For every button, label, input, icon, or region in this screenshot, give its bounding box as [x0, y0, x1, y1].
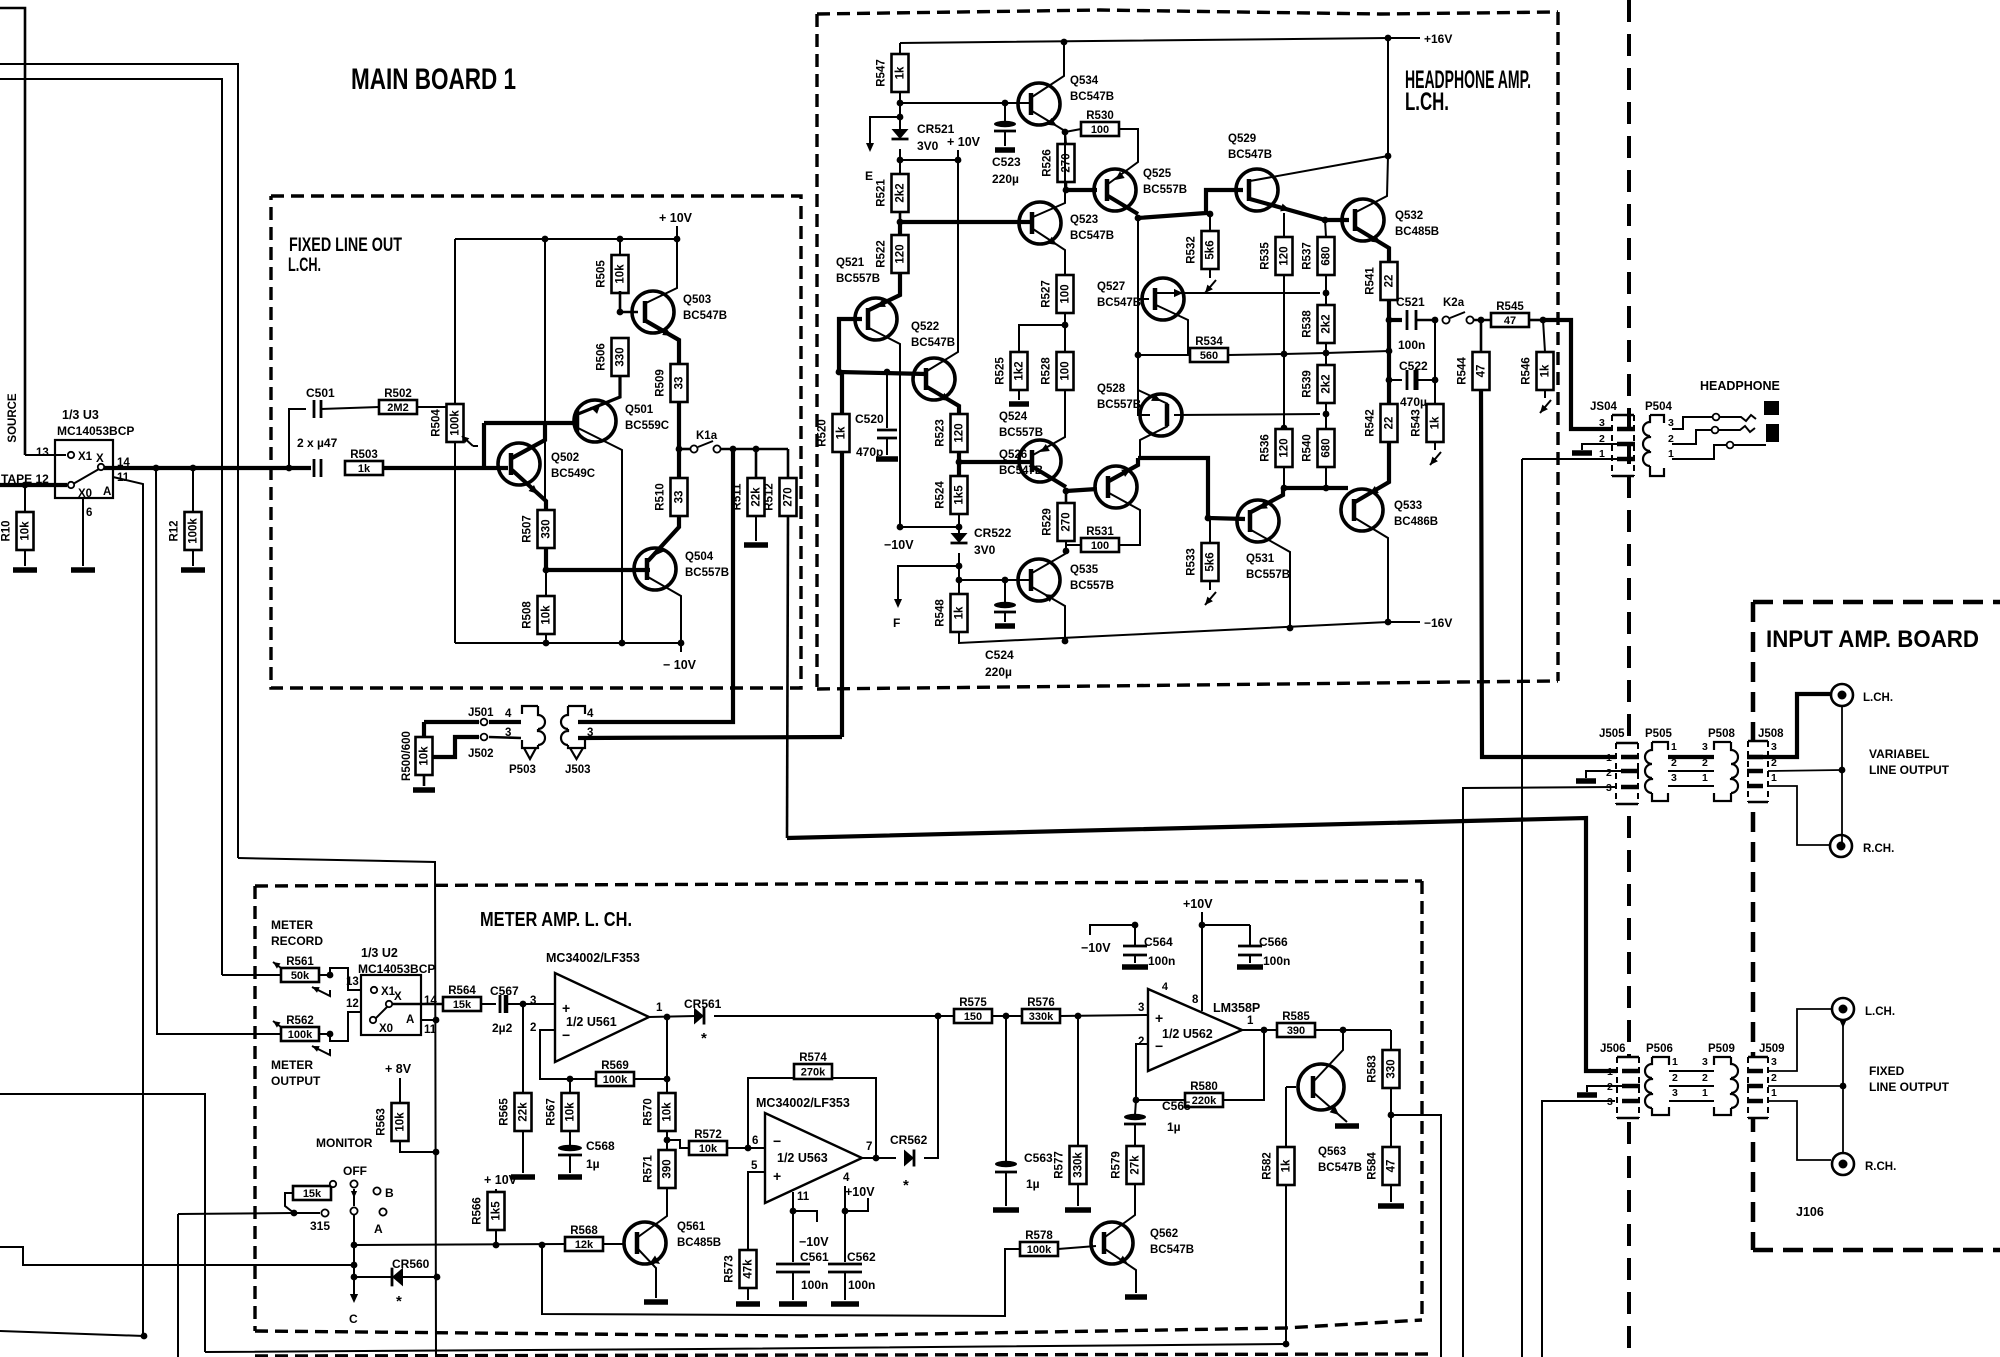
svg-text:27k: 27k	[1130, 1155, 1142, 1175]
svg-text:+ 8V: + 8V	[385, 1062, 412, 1076]
svg-text:R577: R577	[1054, 1151, 1066, 1179]
svg-text:2k2: 2k2	[895, 183, 907, 202]
svg-text:2 x µ47: 2 x µ47	[297, 436, 338, 450]
resistor R507	[538, 510, 555, 548]
resistor R531	[1066, 545, 1081, 551]
svg-text:100k: 100k	[603, 1074, 628, 1086]
svg-text:R563: R563	[376, 1108, 388, 1136]
svg-text:10k: 10k	[20, 521, 32, 541]
svg-text:LM358P: LM358P	[1213, 1001, 1260, 1015]
transistor Q524	[1019, 440, 1061, 482]
resistor R573	[740, 1250, 757, 1288]
svg-text:47: 47	[1476, 365, 1488, 378]
R561 wiper	[312, 987, 330, 996]
svg-text:100: 100	[1091, 124, 1109, 136]
wire J504 pin1 row	[1522, 458, 1634, 460]
wire R534 row to thick column	[1284, 351, 1389, 354]
svg-text:10k: 10k	[662, 1102, 674, 1122]
wire -10V rail bottom of fixed block	[455, 642, 681, 644]
svg-text:330: 330	[615, 347, 627, 366]
svg-text:390: 390	[662, 1159, 674, 1178]
svg-text:C564: C564	[1144, 935, 1173, 949]
svg-text:5k6: 5k6	[1205, 552, 1217, 571]
wire headphone output to J504	[1543, 320, 1634, 429]
node C arrow	[353, 1283, 355, 1297]
svg-text:R580: R580	[1190, 1081, 1218, 1093]
svg-text:R585: R585	[1282, 1011, 1310, 1023]
svg-text:315: 315	[310, 1219, 330, 1233]
svg-text:R566: R566	[472, 1197, 484, 1225]
wire Q524 collector to R529 node	[1033, 467, 1066, 487]
svg-text:Q532: Q532	[1395, 210, 1423, 222]
wire R583 to R584	[1390, 1088, 1392, 1147]
svg-text:BC485B: BC485B	[1395, 226, 1439, 238]
resistor R582	[1278, 1147, 1295, 1185]
transistor Q563	[1298, 1064, 1344, 1110]
opamp U562 triangle	[1148, 989, 1242, 1071]
transistor Q522	[913, 358, 955, 400]
svg-text:Q521: Q521	[836, 257, 865, 269]
svg-text:100: 100	[1060, 361, 1072, 380]
svg-text:R529: R529	[1042, 508, 1054, 536]
svg-text:*: *	[396, 1293, 402, 1310]
wire Q528 lower diag to output node	[1140, 426, 1168, 456]
wire U2 output to R564	[392, 1003, 443, 1006]
transistor emitter arrows	[662, 328, 672, 336]
transistor Q525	[1094, 169, 1136, 211]
wire R534 right to R535 node	[1228, 354, 1284, 355]
svg-text:R538: R538	[1302, 310, 1314, 338]
svg-text:4: 4	[1162, 981, 1169, 993]
resistor R547	[899, 43, 901, 54]
wire TAPE input	[0, 483, 67, 487]
svg-text:10k: 10k	[419, 746, 431, 766]
svg-text:220µ: 220µ	[985, 665, 1012, 679]
svg-text:−10V: −10V	[884, 538, 914, 552]
wire R561 to U2 pin13	[319, 968, 361, 990]
ground at J506 pin2	[1587, 1086, 1623, 1092]
wire K1a to R511 R512	[720, 448, 788, 451]
resistor R505	[619, 239, 621, 255]
zener CR521 3V0	[892, 129, 909, 139]
wire Q522 emitter to R523	[927, 387, 959, 414]
node E arrow	[870, 117, 900, 148]
svg-text:C520: C520	[855, 412, 884, 426]
RCA jack R.CH fixed	[1832, 1153, 1854, 1175]
wire mid column Q525-Q527-R534-Q528	[1138, 218, 1150, 415]
resistor R540	[1325, 414, 1327, 429]
wire jack to jack	[1841, 706, 1843, 846]
svg-text:SOURCE: SOURCE	[7, 393, 19, 443]
svg-text:R544: R544	[1457, 357, 1469, 385]
svg-text:BC547B: BC547B	[1070, 230, 1114, 242]
wire long bottom run 1	[0, 1331, 144, 1336]
wire K2a to R545	[1473, 319, 1491, 322]
wire R574 to output	[832, 1078, 876, 1158]
svg-text:BC557B: BC557B	[1070, 580, 1114, 592]
svg-text:R527: R527	[1041, 280, 1053, 308]
wire +10V rail top of fixed block	[455, 238, 677, 240]
wire node to Q526 base	[1066, 489, 1097, 491]
svg-text:1k: 1k	[836, 426, 848, 439]
svg-text:−10V: −10V	[799, 1235, 829, 1249]
capacitor C524 220u	[1004, 580, 1006, 603]
svg-text:Q534: Q534	[1070, 75, 1099, 87]
svg-text:R524: R524	[935, 481, 947, 509]
svg-text:12k: 12k	[575, 1239, 594, 1251]
wire Q529 emitter to Q532 base	[1250, 199, 1349, 220]
wire Q523 collector column	[1033, 132, 1065, 217]
wire thick input vertical from J503	[840, 374, 844, 737]
svg-text:10k: 10k	[699, 1143, 718, 1155]
svg-text:3: 3	[1668, 417, 1674, 429]
resistor R584	[1383, 1147, 1400, 1185]
svg-text:150: 150	[964, 1011, 982, 1023]
wire Q563 base from R582	[1286, 1086, 1296, 1088]
svg-text:OFF: OFF	[343, 1164, 367, 1178]
wire R505 to Q503 base	[620, 291, 638, 312]
svg-text:R542: R542	[1365, 409, 1377, 437]
wire Q523 emitter to R527	[1033, 229, 1065, 275]
resistor R574	[794, 1064, 832, 1079]
wire Q501 collector down to -10V rail	[578, 428, 622, 643]
svg-text:12: 12	[346, 998, 359, 1010]
svg-text:R534: R534	[1195, 336, 1223, 348]
svg-text:−10V: −10V	[1081, 941, 1111, 955]
svg-text:MAIN BOARD 1: MAIN BOARD 1	[351, 63, 516, 96]
svg-text:METER: METER	[271, 1058, 313, 1072]
transistor Q528	[1140, 394, 1182, 436]
svg-text:BC559C: BC559C	[625, 420, 669, 432]
svg-text:4: 4	[587, 708, 594, 720]
svg-text:A: A	[374, 1222, 383, 1236]
svg-text:BC547B: BC547B	[1097, 297, 1141, 309]
svg-text:1k: 1k	[358, 463, 371, 475]
svg-text:L.CH.: L.CH.	[1405, 88, 1449, 116]
wire Q527 collector	[1156, 305, 1188, 354]
svg-text:15k: 15k	[303, 1188, 322, 1200]
svg-text:R561: R561	[286, 956, 314, 968]
svg-text:3: 3	[530, 995, 536, 1007]
svg-text:1/2 U562: 1/2 U562	[1162, 1027, 1213, 1041]
resistor R567	[569, 1079, 571, 1093]
svg-text:270: 270	[1061, 512, 1073, 531]
svg-text:1/3 U2: 1/3 U2	[361, 946, 398, 960]
wire Q524 base thick row	[959, 460, 1031, 464]
capacitor C563 1u	[1005, 1016, 1007, 1162]
wire Q561 emitter to ground	[638, 1249, 656, 1298]
svg-text:680: 680	[1321, 438, 1333, 457]
transistor Q529	[1236, 169, 1278, 211]
svg-text:P506: P506	[1646, 1043, 1673, 1055]
svg-text:C524: C524	[985, 648, 1014, 662]
wire thick rail to Q533 base	[1283, 486, 1348, 490]
svg-text:1: 1	[1672, 1056, 1678, 1068]
svg-text:3: 3	[1702, 741, 1708, 753]
svg-text:R573: R573	[724, 1255, 736, 1283]
svg-text:22: 22	[1384, 275, 1396, 288]
svg-text:R575: R575	[959, 997, 987, 1009]
transistor Q532	[1342, 199, 1384, 241]
svg-text:J502: J502	[468, 748, 494, 760]
svg-text:1: 1	[1606, 752, 1612, 764]
wire U3 X output down to R562 feed	[156, 468, 281, 1034]
svg-text:R568: R568	[570, 1225, 598, 1237]
capacitor C568 1u	[569, 1131, 571, 1146]
svg-text:22: 22	[1384, 417, 1396, 430]
svg-text:1: 1	[1671, 741, 1677, 753]
dashed box INPUT AMP BOARD	[1753, 600, 2000, 605]
svg-text:R572: R572	[694, 1129, 722, 1141]
svg-text:15k: 15k	[453, 999, 472, 1011]
wire Q502 collector to base row	[512, 424, 545, 458]
svg-text:3: 3	[1672, 1087, 1678, 1099]
resistor R575	[954, 1009, 992, 1023]
svg-text:220k: 220k	[1192, 1095, 1217, 1107]
svg-text:BC547B: BC547B	[1318, 1162, 1362, 1174]
resistor R580	[1185, 1093, 1223, 1107]
wire Q563 collector	[1314, 1030, 1343, 1081]
resistor R536	[1276, 429, 1293, 467]
svg-text:−16V: −16V	[1424, 616, 1452, 630]
wire R527 to node	[1064, 313, 1066, 325]
svg-text:−: −	[562, 1027, 570, 1043]
svg-text:+10V: +10V	[1183, 897, 1213, 911]
svg-text:R504: R504	[431, 409, 443, 437]
wire R509 to K1a node	[677, 401, 681, 449]
svg-text:X1: X1	[78, 451, 93, 463]
svg-text:3: 3	[505, 727, 511, 739]
resistor R570	[659, 1093, 676, 1131]
wire mid column +10V to R507	[544, 239, 546, 505]
svg-text:Q502: Q502	[551, 452, 579, 464]
wire Q525 collector to Q529 base	[1138, 190, 1243, 218]
node F arrow	[898, 566, 959, 604]
svg-text:X0: X0	[78, 488, 92, 500]
svg-text:10k: 10k	[615, 264, 627, 284]
resistor R509	[671, 364, 688, 402]
transistor Q523	[1019, 202, 1061, 244]
wire +10V to Q522 collector column	[900, 159, 958, 161]
wire U563 pin5 to R573	[748, 1172, 765, 1250]
svg-text:BC557B: BC557B	[836, 273, 880, 285]
svg-text:100: 100	[1091, 540, 1109, 552]
svg-text:1: 1	[1702, 772, 1708, 784]
svg-text:C561: C561	[800, 1250, 829, 1264]
svg-text:R530: R530	[1086, 110, 1114, 122]
svg-text:R526: R526	[1042, 149, 1054, 177]
svg-text:VARIABEL: VARIABEL	[1869, 747, 1929, 761]
svg-text:1: 1	[656, 1002, 663, 1014]
wire R537 to node	[1325, 274, 1327, 293]
svg-text:100n: 100n	[1398, 338, 1425, 352]
svg-text:1: 1	[1771, 1087, 1777, 1099]
svg-text:R528: R528	[1041, 357, 1053, 385]
wire Q531 emitter to thick rail	[1251, 488, 1283, 512]
svg-text:330k: 330k	[1073, 1152, 1085, 1178]
transistor Q527	[1142, 278, 1184, 320]
label -10V U563	[793, 1211, 817, 1222]
svg-text:4: 4	[505, 708, 512, 720]
svg-text:100k: 100k	[450, 410, 462, 436]
svg-text:X: X	[394, 991, 402, 1003]
svg-text:R502: R502	[384, 388, 412, 400]
capacitor C561 100n	[792, 1211, 794, 1262]
svg-text:100n: 100n	[1263, 954, 1290, 968]
wire Q502 emitter to R507	[512, 470, 546, 510]
svg-text:P509: P509	[1708, 1043, 1735, 1055]
svg-text:R547: R547	[876, 59, 888, 87]
svg-text:3V0: 3V0	[974, 543, 996, 557]
svg-text:R570: R570	[643, 1098, 655, 1126]
wire +16V rail	[900, 38, 1420, 43]
wire C522 to K2a node	[1434, 320, 1436, 380]
wires P505 to P508	[1668, 755, 1714, 759]
svg-text:C523: C523	[992, 155, 1021, 169]
svg-text:L.CH.: L.CH.	[1863, 692, 1893, 704]
wire Q533 collector to -16V	[1355, 518, 1388, 622]
svg-text:2k2: 2k2	[1321, 374, 1333, 393]
svg-text:10k: 10k	[395, 1112, 407, 1132]
svg-text:3: 3	[1702, 1056, 1708, 1068]
transistor Q503	[632, 291, 674, 333]
svg-text:1/2 U563: 1/2 U563	[777, 1151, 828, 1165]
wire -16V rail	[959, 622, 1420, 643]
svg-text:R506: R506	[596, 343, 608, 371]
svg-text:P508: P508	[1708, 728, 1735, 740]
svg-text:Q561: Q561	[677, 1221, 706, 1233]
resistor R527	[1057, 275, 1074, 313]
resistor R524	[957, 462, 961, 476]
wire U2 pin11 to bus	[421, 1019, 436, 1021]
wire Q526 emitter to output node	[1109, 458, 1138, 481]
resistor R508	[545, 570, 547, 596]
wire R545 to output node	[1529, 319, 1543, 322]
wire R575 to R576	[992, 1015, 1022, 1017]
wire top-left corner	[0, 8, 25, 455]
wire R582 down to bottom run	[1285, 1185, 1287, 1344]
svg-text:R574: R574	[799, 1052, 827, 1064]
svg-text:R533: R533	[1186, 548, 1198, 576]
connector P503	[522, 706, 545, 748]
svg-text:R584: R584	[1367, 1152, 1379, 1180]
svg-text:J106: J106	[1796, 1205, 1824, 1219]
svg-text:CR562: CR562	[890, 1133, 928, 1147]
svg-text:FIXED: FIXED	[1869, 1064, 1905, 1078]
svg-text:+ 10V: + 10V	[947, 135, 981, 149]
svg-text:3: 3	[1771, 741, 1777, 753]
transistor Q501	[574, 400, 616, 442]
ground at J504 pin2	[1582, 444, 1618, 450]
svg-text:J501: J501	[468, 707, 494, 719]
svg-text:R522: R522	[876, 240, 888, 268]
svg-text:R503: R503	[350, 449, 378, 461]
wire Q503 collector to +10V	[646, 239, 677, 303]
svg-text:+: +	[773, 1168, 781, 1184]
svg-text:R569: R569	[601, 1060, 629, 1072]
svg-text:33: 33	[674, 491, 686, 504]
svg-text:R520: R520	[817, 419, 829, 447]
svg-text:270k: 270k	[801, 1067, 826, 1079]
svg-text:13: 13	[36, 447, 49, 459]
svg-text:120: 120	[954, 423, 966, 442]
svg-text:1k5: 1k5	[491, 1201, 503, 1221]
svg-text:R543: R543	[1411, 409, 1423, 437]
wire Q531 collector to -16V	[1251, 530, 1290, 628]
svg-text:CR560: CR560	[392, 1257, 430, 1271]
svg-text:6: 6	[86, 507, 92, 519]
svg-text:50k: 50k	[291, 970, 310, 982]
svg-text:K1a: K1a	[696, 430, 718, 442]
svg-text:− 10V: − 10V	[663, 658, 697, 672]
wire R529 bottom node	[1065, 540, 1067, 551]
svg-text:270: 270	[1061, 153, 1073, 172]
svg-text:R583: R583	[1367, 1055, 1379, 1083]
svg-text:1k: 1k	[954, 606, 966, 619]
svg-text:Q528: Q528	[1097, 383, 1126, 395]
resistor R583	[1390, 1030, 1392, 1050]
svg-text:1: 1	[1702, 1087, 1708, 1099]
wire Q529 collector to +16V column	[1250, 156, 1388, 181]
transistor Q534	[1018, 83, 1060, 125]
dashed box HEADPHONE AMP	[817, 10, 1558, 14]
resistor R523	[951, 414, 968, 452]
wire J508 pin1 to R.CH jack	[1768, 786, 1830, 845]
svg-text:1: 1	[1771, 772, 1777, 784]
svg-text:1k: 1k	[1430, 416, 1442, 429]
svg-text:C501: C501	[306, 386, 335, 400]
wire feedback R574 loop	[748, 1078, 794, 1148]
svg-text:F: F	[893, 616, 900, 630]
dashed next-section border bottom	[255, 1354, 1430, 1356]
wire node to R525	[1019, 325, 1065, 352]
resistor R543	[1434, 380, 1436, 404]
svg-text:Q529: Q529	[1228, 133, 1256, 145]
svg-text:1µ: 1µ	[1167, 1120, 1181, 1134]
wire U561 output	[649, 1016, 695, 1017]
resistor R12	[190, 465, 197, 472]
svg-text:BC547B: BC547B	[683, 310, 727, 322]
svg-text:P503: P503	[509, 764, 536, 776]
wire main signal row from U3 to C501	[104, 466, 311, 470]
wire R538 to R534 row	[1325, 342, 1327, 365]
svg-text:R539: R539	[1302, 370, 1314, 398]
svg-text:MC34002/LF353: MC34002/LF353	[756, 1096, 850, 1110]
connector J503	[561, 706, 585, 748]
svg-text:BC557B: BC557B	[999, 427, 1043, 439]
svg-text:R564: R564	[448, 985, 476, 997]
resistor R565	[522, 1004, 524, 1093]
wire R541 to C521 node	[1387, 300, 1391, 320]
wire R547 to CR521	[899, 92, 901, 133]
svg-text:BC547B: BC547B	[1228, 149, 1272, 161]
wire J503 pin4 to K1a column	[578, 449, 733, 722]
resistor R506	[612, 338, 629, 376]
ground at J505 pin2	[1586, 771, 1622, 778]
svg-text:C565: C565	[1162, 1099, 1191, 1113]
wire R521 to Q523 base row	[899, 211, 902, 222]
svg-text:100n: 100n	[1148, 954, 1175, 968]
svg-text:22k: 22k	[518, 1102, 530, 1122]
svg-text:CR521: CR521	[917, 122, 955, 136]
wire Q527 base from column	[1138, 298, 1149, 300]
wire CR521 to row	[899, 149, 901, 160]
transistor Q531	[1237, 500, 1279, 542]
svg-text:Q504: Q504	[685, 551, 714, 563]
test arrow R543	[1430, 452, 1441, 465]
resistor R564	[443, 997, 481, 1011]
svg-text:FIXED LINE OUT: FIXED LINE OUT	[289, 235, 402, 256]
